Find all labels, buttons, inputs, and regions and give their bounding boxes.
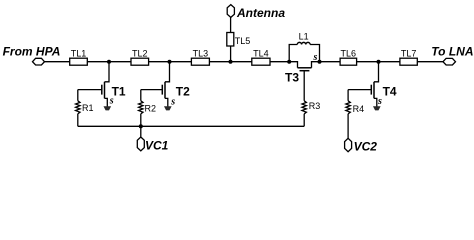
svg-text:T3: T3 — [285, 71, 299, 85]
wire TL3 to TL4 — [209, 61, 251, 63]
transistor T1 gate bar — [101, 85, 103, 95]
wire TL4 to node D — [270, 61, 289, 63]
svg-text:TL4: TL4 — [253, 48, 269, 58]
transmission line TL6 — [340, 58, 357, 65]
port P3 Antenna — [227, 5, 234, 18]
node F junction dot — [377, 60, 381, 64]
transistor T1 source lead — [105, 98, 108, 106]
transistor T3 gate bar — [300, 70, 310, 72]
wire R4 to VC2 — [347, 114, 349, 139]
wire TL7 to P2 — [417, 61, 443, 63]
transistor T4 source lead — [374, 98, 377, 106]
transistor T2 source lead — [165, 98, 168, 106]
wire TL6 to TL7 — [357, 61, 400, 63]
transmission line TL2 — [131, 58, 149, 65]
wire TL2 to TL3 — [149, 61, 192, 63]
transmission line TL3 — [191, 58, 209, 65]
wire TL5 to node C — [230, 46, 232, 62]
svg-text:VC1: VC1 — [145, 138, 169, 152]
svg-text:TL7: TL7 — [401, 48, 417, 58]
resistor R1 — [76, 101, 80, 114]
node B junction dot — [168, 60, 172, 64]
transistor T3 source lead — [312, 62, 320, 68]
transmission line TL4 — [252, 58, 270, 65]
transistor T4 drain lead — [374, 62, 379, 82]
wire gate T1 to R1 — [77, 90, 79, 101]
svg-text:s: s — [377, 96, 382, 107]
port P5 VC2 — [345, 138, 352, 151]
port P1 From HPA — [33, 58, 45, 65]
transistor T4 gate bar — [370, 85, 372, 95]
svg-text:s: s — [313, 52, 318, 63]
transistor T1 drain lead — [105, 62, 110, 82]
inductor L1 right lead — [310, 45, 319, 62]
transmission line TL1 — [70, 58, 88, 65]
wire R1 to bus — [77, 114, 79, 127]
transistor T3 drain lead — [289, 62, 297, 68]
wire P1 to TL1 — [45, 61, 70, 63]
ground T2 source — [164, 106, 172, 110]
svg-text:R4: R4 — [353, 104, 365, 114]
wire VC1 stub — [140, 126, 142, 137]
transistor T4 gate lead — [348, 89, 371, 91]
wire VC1 bus — [78, 125, 304, 127]
transistor T1 channel bar — [104, 82, 106, 99]
node D junction dot — [287, 60, 291, 64]
svg-text:s: s — [170, 96, 175, 107]
transistor T3 channel bar — [298, 67, 312, 69]
svg-text:s: s — [109, 96, 114, 107]
inductor L1 coil — [297, 42, 310, 44]
svg-text:R2: R2 — [145, 104, 157, 114]
svg-text:R3: R3 — [309, 101, 321, 111]
node E junction dot — [318, 60, 322, 64]
svg-text:R1: R1 — [82, 103, 94, 113]
svg-text:VC2: VC2 — [354, 139, 378, 153]
node VC1 junction dot — [139, 124, 143, 128]
svg-text:TL2: TL2 — [132, 48, 148, 58]
transistor T4 channel bar — [373, 82, 375, 99]
transistor T2 gate bar — [161, 85, 163, 95]
svg-text:To LNA: To LNA — [431, 45, 473, 59]
svg-text:From HPA: From HPA — [3, 45, 61, 59]
port P4 VC1 — [137, 137, 144, 151]
transmission line TL7 — [400, 58, 417, 65]
transistor T1 gate lead — [78, 89, 102, 91]
svg-text:TL3: TL3 — [193, 48, 209, 58]
svg-text:T4: T4 — [383, 84, 397, 98]
wire R3 to bus — [303, 114, 305, 127]
resistor R3 — [302, 101, 306, 114]
node C junction dot — [229, 60, 233, 64]
transistor T2 drain lead — [165, 62, 170, 82]
transistor T2 gate lead — [141, 89, 163, 91]
svg-text:T1: T1 — [112, 84, 126, 98]
node A junction dot — [107, 60, 111, 64]
ground T1 source — [104, 106, 112, 110]
wire node E to TL6 — [320, 61, 341, 63]
port P2 To LNA — [443, 58, 456, 65]
svg-text:TL1: TL1 — [71, 48, 87, 58]
resistor R2 — [139, 101, 143, 114]
transistor T3 gate lead — [303, 71, 305, 101]
wire gate T4 to R4 — [347, 90, 349, 101]
resistor R4 — [346, 101, 350, 114]
inductor L1 left lead — [289, 45, 297, 62]
svg-text:TL5: TL5 — [235, 36, 251, 46]
svg-text:T2: T2 — [176, 84, 190, 98]
transistor T2 channel bar — [164, 82, 166, 99]
svg-text:TL6: TL6 — [341, 48, 357, 58]
svg-text:L1: L1 — [299, 31, 309, 41]
wire Antenna to TL5 — [230, 17, 232, 32]
wire R2 to bus — [140, 114, 142, 127]
ground T4 source — [373, 106, 381, 110]
transmission line TL5 — [227, 33, 234, 47]
svg-text:Antenna: Antenna — [236, 6, 285, 20]
wire gate T2 to R2 — [140, 90, 142, 101]
wire TL1 to TL2 — [87, 61, 131, 63]
